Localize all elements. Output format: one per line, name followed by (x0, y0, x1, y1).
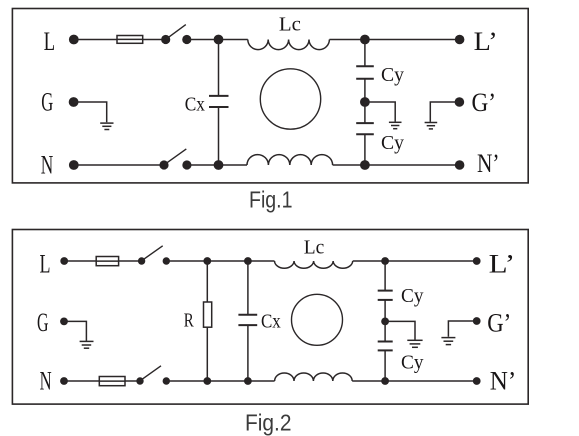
wire (187, 164, 247, 166)
svg-text:Cy: Cy (381, 64, 405, 86)
switch S1 (161, 25, 191, 45)
node junction Cy mid (Fig.2) (381, 318, 389, 326)
node junction Cx-L (244, 257, 252, 265)
inductor Lc bottom winding (Fig.2) (275, 373, 353, 381)
svg-text:Lc: Lc (279, 14, 301, 36)
svg-text:G: G (41, 86, 53, 116)
ground (80, 341, 94, 348)
node junction Cy mid (360, 97, 370, 107)
terminal dot L' (455, 35, 465, 45)
capacitor Cx (209, 40, 229, 166)
terminal dot L (69, 35, 79, 45)
terminal dot G (69, 97, 79, 107)
wire (64, 321, 86, 341)
capacitor Cy upper (356, 40, 374, 103)
enclosure box Fig.2 (12, 230, 528, 405)
terminal dot N (Fig.2) (60, 377, 68, 385)
wire (143, 39, 166, 41)
wire (385, 321, 415, 339)
node junction Cy-N (Fig.2) (381, 377, 389, 385)
svg-text:G’: G’ (487, 308, 511, 338)
wire (64, 380, 99, 382)
terminal dot N' (Fig.2) (473, 377, 481, 385)
terminal dot G' (455, 97, 465, 107)
svg-text:Cy: Cy (401, 285, 424, 307)
choke core circle (260, 69, 320, 129)
wire (333, 164, 460, 166)
svg-text:Lc: Lc (304, 237, 325, 259)
terminal dot G (Fig.2) (60, 318, 68, 326)
terminal dot N' (455, 160, 465, 170)
node junction Cx-N (Fig.2) (244, 377, 252, 385)
svg-text:G: G (37, 307, 49, 337)
capacitor Cy lower (356, 102, 374, 165)
svg-text:N: N (40, 366, 52, 396)
node junction Cy-L (360, 35, 370, 45)
terminal dot G' (Fig.2) (473, 317, 481, 325)
wire (119, 260, 142, 262)
fuse F3 (99, 377, 125, 386)
node junction R-N (203, 377, 211, 385)
terminal dot L' (Fig.2) (473, 257, 481, 265)
svg-text:Cy: Cy (401, 351, 424, 373)
svg-text:Fig.1: Fig.1 (249, 187, 293, 213)
svg-text:G’: G’ (472, 87, 497, 117)
wire (329, 39, 459, 41)
wire (166, 380, 274, 382)
choke core circle (Fig.2) (292, 294, 343, 345)
wire (353, 260, 477, 262)
wire (430, 102, 459, 122)
node junction Cx-N (214, 160, 224, 170)
svg-text:Cx: Cx (261, 311, 281, 333)
inductor Lc bottom winding (247, 155, 333, 165)
switch S4 (136, 366, 170, 385)
svg-text:N: N (41, 150, 54, 180)
node junction Cy-L (Fig.2) (381, 257, 389, 265)
ground (425, 123, 438, 129)
wire (74, 102, 107, 122)
svg-text:Cy: Cy (381, 132, 405, 154)
svg-text:L: L (44, 26, 56, 56)
capacitor Cx (Fig.2) (238, 261, 257, 381)
capacitor Cy upper (Fig.2) (378, 261, 393, 321)
terminal dot L (60, 257, 68, 265)
node junction R-L (203, 257, 211, 265)
ground (407, 340, 422, 347)
wire (448, 321, 476, 337)
inductor Lc top winding (Fig.2) (275, 261, 353, 268)
svg-text:R: R (184, 310, 194, 332)
enclosure box Fig.1 (12, 9, 528, 183)
fuse F2 (96, 257, 118, 266)
switch S2 (159, 149, 191, 170)
wire (187, 39, 248, 41)
ground (441, 338, 455, 345)
svg-text:Cx: Cx (185, 93, 205, 115)
inductor Lc top winding (248, 40, 330, 50)
ground (389, 122, 402, 128)
svg-text:L: L (40, 249, 51, 279)
svg-text:N’: N’ (490, 366, 517, 396)
wire (74, 39, 117, 41)
node junction Cx-L (214, 35, 224, 45)
svg-text:L’: L’ (474, 26, 498, 56)
svg-text:N’: N’ (477, 148, 500, 178)
switch S3 (138, 246, 170, 265)
wire (64, 260, 96, 262)
wire (365, 102, 395, 122)
wire (352, 380, 477, 382)
wire (125, 380, 140, 382)
resistor R (204, 261, 212, 381)
svg-text:Fig.2: Fig.2 (245, 410, 292, 436)
ground (100, 123, 113, 129)
fuse F1 (117, 36, 143, 44)
terminal dot N (69, 160, 79, 170)
svg-text:L’: L’ (489, 249, 516, 279)
wire (74, 164, 164, 166)
capacitor Cy lower (Fig.2) (378, 321, 393, 381)
wire (166, 260, 274, 262)
node junction Cy-N (360, 160, 370, 170)
